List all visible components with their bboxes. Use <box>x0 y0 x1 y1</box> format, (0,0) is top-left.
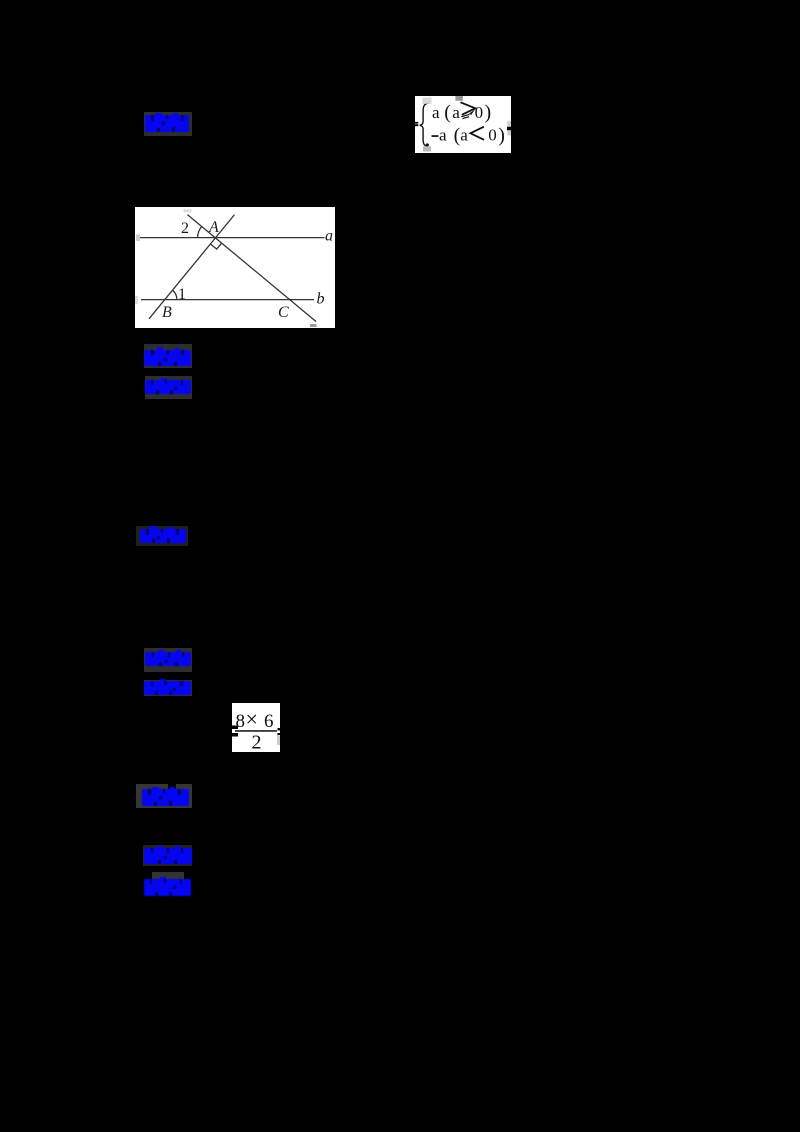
svg-text:2: 2 <box>181 220 189 237</box>
svg-text:1: 1 <box>178 286 186 303</box>
svg-text:B: B <box>162 304 172 321</box>
svg-text:a: a <box>460 126 468 145</box>
svg-text:2: 2 <box>252 732 262 753</box>
svg-text:b: b <box>317 291 325 308</box>
svg-text:C: C <box>278 304 289 321</box>
svg-text:a: a <box>432 103 440 122</box>
svg-text:a: a <box>452 103 460 122</box>
svg-text:a: a <box>439 126 447 145</box>
svg-text:0: 0 <box>488 126 497 145</box>
svg-text:a: a <box>325 228 333 245</box>
svg-text:×: × <box>246 707 258 732</box>
svg-text:6: 6 <box>264 711 274 732</box>
svg-text:): ) <box>498 125 505 147</box>
svg-text:): ) <box>485 102 492 124</box>
svg-text:8: 8 <box>236 711 246 732</box>
svg-text:0: 0 <box>475 103 484 122</box>
svg-text:(: ( <box>444 102 451 124</box>
svg-text:A: A <box>208 219 219 236</box>
